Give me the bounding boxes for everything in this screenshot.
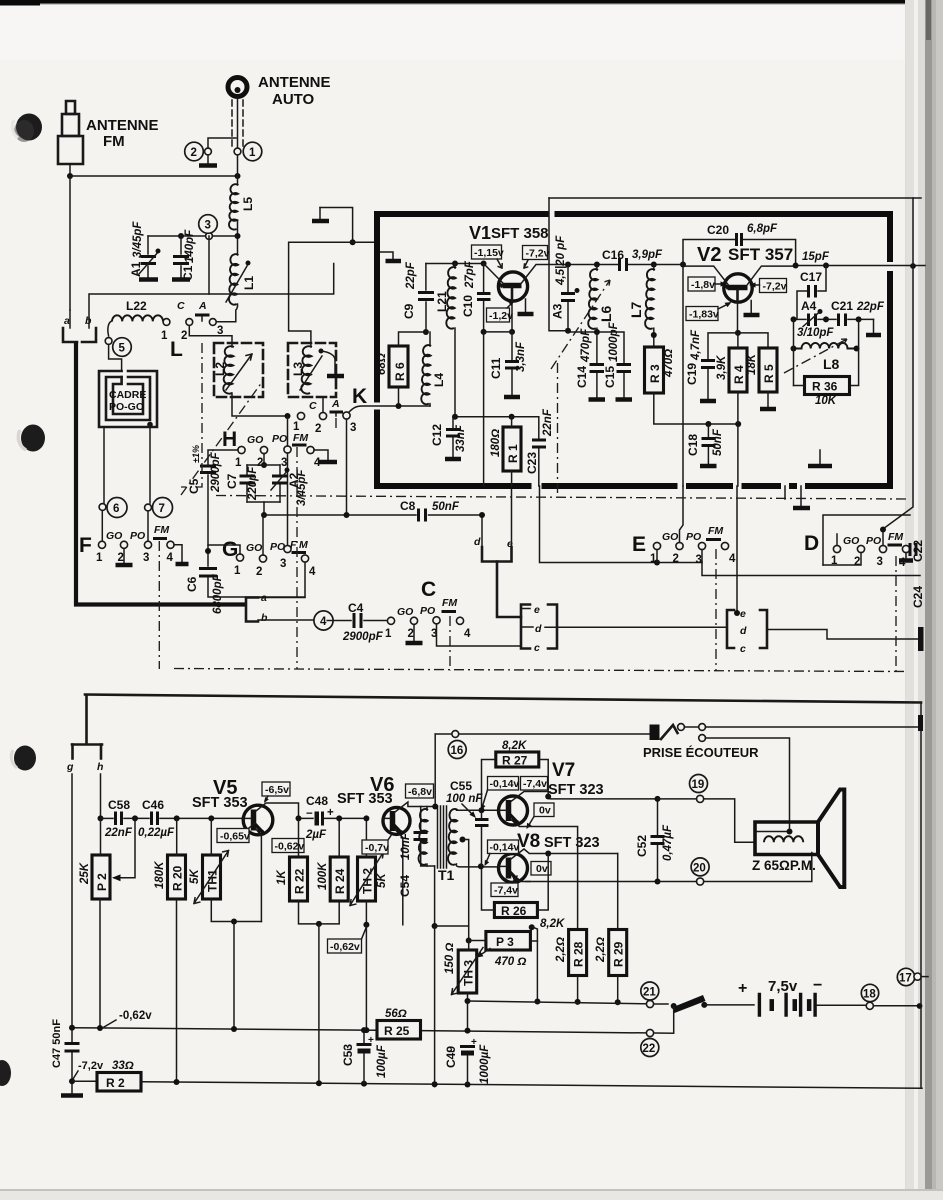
- svg-text:SFT 323: SFT 323: [544, 835, 600, 851]
- svg-text:PO: PO: [420, 605, 435, 617]
- F4 ground: [174, 545, 182, 562]
- svg-text:V8: V8: [517, 831, 540, 852]
- wire a to G4: [258, 562, 305, 598]
- resistor R3: [645, 347, 664, 393]
- svg-text:CADRE: CADRE: [109, 389, 146, 401]
- wire cadre right to circle 7: [149, 425, 151, 504]
- svg-text:180K: 180K: [154, 861, 166, 889]
- node 1 terminal: [234, 148, 241, 155]
- voltage box 0v V7: [534, 803, 554, 817]
- capacitor C18: [707, 424, 709, 437]
- svg-text:15pF: 15pF: [802, 251, 830, 263]
- dashed box L2: [214, 343, 263, 397]
- wire a-line down left: [69, 176, 71, 310]
- circle 22: [641, 1039, 659, 1057]
- wire cadre left to circle 6: [103, 427, 105, 503]
- coil L4: [429, 332, 431, 346]
- svg-text:P 3: P 3: [496, 935, 514, 949]
- svg-text:C55: C55: [450, 779, 472, 793]
- capacitor C1 140pF: [180, 236, 182, 254]
- thermistor TH3: [458, 950, 477, 993]
- wire K from t3 to IF box: [349, 406, 431, 413]
- wire antenna FM down to junction: [69, 164, 71, 176]
- terminal 3 of L row: [209, 319, 216, 326]
- AF box right border: [920, 703, 922, 1088]
- svg-text:R 1: R 1: [506, 444, 520, 463]
- circle 21: [641, 982, 659, 1000]
- svg-text:C18: C18: [686, 434, 700, 456]
- capacitor C23: [538, 417, 540, 439]
- capacitor C20: [683, 240, 735, 267]
- circle 19: [690, 775, 708, 793]
- svg-text:ANTENNE: ANTENNE: [258, 74, 331, 91]
- svg-text:R 22: R 22: [293, 868, 307, 894]
- coil L8: [794, 343, 856, 349]
- svg-text:2,2Ω: 2,2Ω: [595, 937, 607, 963]
- svg-text:0v: 0v: [539, 805, 551, 817]
- svg-text:C10: C10: [461, 295, 475, 317]
- svg-text:2: 2: [673, 553, 679, 565]
- svg-text:PO: PO: [270, 541, 285, 553]
- svg-text:470pF: 470pF: [580, 328, 592, 363]
- potentiometer P2: [92, 855, 110, 899]
- wire L row t2 to L2 top: [189, 326, 232, 347]
- svg-text:22nF: 22nF: [104, 827, 133, 839]
- svg-text:FM: FM: [154, 524, 169, 536]
- capacitor C19: [708, 333, 738, 359]
- transformer T1 secondary: [448, 809, 457, 865]
- svg-text:0v: 0v: [536, 863, 548, 875]
- wire x913 vertical: [883, 198, 913, 529]
- wire 15pF output line: [796, 265, 925, 267]
- wire g line down: [71, 774, 73, 1028]
- svg-text:H: H: [222, 428, 237, 451]
- svg-text:C22: C22: [911, 540, 925, 562]
- svg-text:PO: PO: [272, 433, 287, 445]
- svg-text:−: −: [346, 1045, 352, 1056]
- junction dot R6 bottom (K net): [396, 403, 402, 409]
- svg-text:1000µF: 1000µF: [479, 1044, 491, 1084]
- svg-text:C: C: [309, 400, 317, 412]
- resistor R28: [569, 930, 587, 976]
- svg-text:R 26: R 26: [501, 904, 527, 918]
- svg-text:c: c: [740, 643, 746, 655]
- wire R1 bottom to e bracket: [511, 471, 513, 486]
- dash-dot horizontal middle: [216, 496, 908, 500]
- svg-text:V2: V2: [697, 244, 721, 266]
- ground below box x801: [800, 486, 802, 506]
- coil L7: [653, 265, 655, 271]
- junction dot corner node: [350, 239, 356, 245]
- svg-text:L3: L3: [291, 362, 305, 376]
- junction dot L2 bottom: [285, 413, 291, 419]
- potentiometer P3: [486, 932, 531, 951]
- svg-text:A3: A3: [551, 303, 565, 319]
- wire L6 bottom bus to C15: [597, 332, 624, 363]
- svg-text:R 28: R 28: [572, 941, 586, 967]
- svg-text:R 36: R 36: [812, 380, 838, 394]
- circle 20: [691, 858, 709, 876]
- svg-text:−: −: [813, 977, 822, 994]
- svg-text:C19: C19: [685, 363, 699, 385]
- junction dot auto line: [235, 173, 241, 179]
- svg-text:2µF: 2µF: [305, 829, 327, 841]
- IF box thick border top: [374, 211, 893, 217]
- wire C3 to bracket c: [437, 624, 522, 646]
- svg-text:d: d: [535, 623, 542, 635]
- IF box thick border bottom: [374, 483, 893, 489]
- svg-text:R 20: R 20: [171, 865, 185, 891]
- svg-text:-6,5v: -6,5v: [265, 784, 289, 796]
- svg-text:SFT 353: SFT 353: [337, 791, 393, 807]
- wire V1 input rail: [426, 263, 484, 265]
- wire node3 to trimmers: [148, 235, 206, 237]
- svg-text:d: d: [474, 536, 481, 548]
- svg-text:±1%: ±1%: [191, 445, 201, 463]
- svg-text:4: 4: [309, 566, 316, 578]
- junction node 3 area: [237, 220, 239, 255]
- dash-dot arrow through L8: [784, 339, 847, 373]
- dashed box L3: [288, 343, 336, 397]
- svg-text:-7,2v: -7,2v: [526, 248, 550, 260]
- svg-text:6,8pF: 6,8pF: [747, 223, 778, 235]
- circle 17: [897, 968, 914, 985]
- svg-text:C7: C7: [225, 473, 239, 489]
- capacitor C9: [424, 302, 426, 332]
- wire 20 line: [658, 853, 812, 882]
- svg-text:3: 3: [205, 220, 211, 232]
- svg-text:GO: GO: [843, 535, 859, 547]
- svg-text:TH 2: TH 2: [361, 868, 375, 894]
- svg-text:22pF: 22pF: [405, 261, 417, 290]
- svg-text:3: 3: [280, 558, 286, 570]
- svg-text:GO: GO: [106, 530, 122, 542]
- capacitor C52: [657, 799, 659, 835]
- wire t3 down to C8 line: [346, 419, 348, 515]
- AF box top border: [85, 695, 921, 703]
- wire T1 sec bottom to V8 base: [456, 864, 498, 867]
- svg-text:C46: C46: [142, 798, 164, 812]
- svg-text:27pF: 27pF: [464, 260, 476, 289]
- T1 core: [438, 806, 447, 868]
- svg-text:-7,2v: -7,2v: [78, 1060, 104, 1072]
- wire T1 sec top to V7 base: [457, 809, 499, 811]
- svg-text:3: 3: [696, 554, 702, 566]
- svg-text:-0,7v: -0,7v: [365, 842, 389, 854]
- svg-text:22: 22: [643, 1043, 656, 1055]
- svg-text:50nF: 50nF: [712, 428, 724, 456]
- svg-text:C1: C1: [181, 265, 195, 281]
- capacitor C5: [208, 450, 238, 464]
- IF box thick border right: [887, 211, 893, 483]
- svg-text:F: F: [79, 534, 92, 557]
- coil L5: [237, 176, 239, 185]
- svg-text:PO: PO: [686, 531, 701, 543]
- IF box thick border left: [374, 211, 380, 483]
- svg-text:16: 16: [451, 745, 464, 757]
- wire R3 bottom rail: [654, 393, 738, 424]
- svg-text:SFT 357: SFT 357: [728, 245, 793, 264]
- svg-text:L6: L6: [598, 305, 614, 322]
- svg-text:GO: GO: [247, 434, 263, 446]
- svg-text:0,47µF: 0,47µF: [662, 824, 674, 861]
- svg-text:7: 7: [159, 503, 165, 515]
- resistor R29: [609, 930, 627, 976]
- svg-text:-0,62v: -0,62v: [275, 841, 305, 853]
- junction dot L4/C9 top: [423, 329, 429, 335]
- wire V2 base to e bracket below: [737, 424, 739, 486]
- svg-text:-1,8v: -1,8v: [691, 279, 715, 291]
- bracket e/d/c right: [727, 610, 734, 648]
- svg-text:180Ω: 180Ω: [490, 429, 502, 457]
- svg-text:L1: L1: [242, 276, 256, 290]
- capacitor C49 electrolytic: [460, 1045, 475, 1048]
- svg-text:3,9K: 3,9K: [716, 355, 728, 380]
- svg-text:-0,62v: -0,62v: [119, 1010, 152, 1022]
- dash-dot gang diagonal mixer: [181, 382, 262, 495]
- svg-text:2900pF: 2900pF: [342, 631, 384, 643]
- voltage box -0,7v: [362, 840, 388, 854]
- svg-text:19: 19: [692, 779, 705, 791]
- voltage box -7,4v V8: [491, 883, 518, 897]
- svg-text:A1: A1: [129, 261, 143, 277]
- capacitor C14: [596, 332, 598, 363]
- voltage box -0,14v V8: [488, 840, 519, 854]
- dash-dot gang vertical L area: [181, 343, 202, 487]
- speaker horn: [818, 790, 844, 888]
- svg-text:R 25: R 25: [384, 1024, 410, 1038]
- bracket a/b: [246, 598, 258, 622]
- svg-text:18K: 18K: [746, 353, 758, 375]
- transformer T1 primary: [426, 807, 428, 811]
- coil L21: [452, 261, 458, 267]
- svg-text:FM: FM: [442, 597, 457, 609]
- svg-text:25K: 25K: [79, 862, 91, 885]
- svg-text:d: d: [740, 625, 747, 637]
- binder hole top: [16, 114, 42, 141]
- svg-text:3,9pF: 3,9pF: [632, 249, 663, 261]
- wire corner node into IF box: [353, 241, 377, 243]
- svg-text:3,3nF: 3,3nF: [515, 341, 527, 372]
- wire E t2 drop from rail: [682, 265, 684, 487]
- row2 terminal 1: [297, 412, 304, 419]
- svg-text:TH 3: TH 3: [461, 960, 475, 986]
- wire E t3 to long rail: [702, 563, 920, 576]
- svg-text:2: 2: [315, 423, 321, 435]
- svg-text:1000pF: 1000pF: [608, 321, 620, 362]
- capacitor C53 electrolytic: [363, 1030, 365, 1043]
- svg-text:33nF: 33nF: [455, 424, 467, 452]
- wire antenna bus horizontal: [70, 175, 238, 177]
- svg-text:L7: L7: [628, 301, 644, 318]
- H4 ground: [314, 450, 328, 460]
- svg-text:470 Ω: 470 Ω: [494, 956, 526, 968]
- dash-dot vertical FM H/G rows: [296, 447, 298, 670]
- svg-text:8,2K: 8,2K: [540, 918, 565, 930]
- svg-text:GO: GO: [246, 542, 262, 554]
- svg-text:c: c: [534, 642, 540, 654]
- wire H3 through: [287, 416, 289, 546]
- svg-text:17: 17: [899, 973, 912, 985]
- svg-text:-0,62v: -0,62v: [330, 941, 360, 953]
- svg-text:L8: L8: [823, 356, 840, 372]
- svg-text:-0,14v: -0,14v: [490, 778, 520, 790]
- wire L1 bottom to switch contact 3: [216, 304, 237, 322]
- svg-text:E: E: [632, 533, 646, 556]
- resistor R36: [805, 377, 850, 395]
- ground under node 2: [207, 155, 209, 164]
- wire T1 prim bottom to lower bus: [434, 926, 436, 1087]
- capacitor C15: [617, 363, 632, 366]
- capacitor C54: [420, 807, 422, 832]
- svg-text:P 2: P 2: [95, 873, 109, 891]
- wire switch to battery: [704, 1004, 754, 1006]
- svg-text:+: +: [738, 980, 747, 997]
- circle 4: [314, 611, 333, 630]
- svg-text:-7,2v: -7,2v: [763, 281, 787, 293]
- svg-text:3/10pF: 3/10pF: [797, 327, 834, 339]
- svg-text:C15: C15: [603, 366, 617, 388]
- svg-text:-6,8v: -6,8v: [408, 786, 432, 798]
- svg-text:C14: C14: [575, 366, 589, 388]
- wire b-line to L3 top: [209, 293, 289, 295]
- svg-text:22nF: 22nF: [542, 408, 554, 437]
- dash-dot gang through A3: [551, 280, 610, 369]
- voltage box -7,2v: [523, 246, 548, 260]
- svg-text:−: −: [449, 1047, 455, 1058]
- voltage box -1,15v: [472, 245, 502, 259]
- terminal 3 circle: [206, 233, 213, 240]
- wire T1 prim bottom down: [434, 866, 436, 926]
- bracket e/d/c left: [521, 605, 530, 649]
- capacitor C11: [511, 332, 513, 360]
- svg-text:A4: A4: [801, 299, 817, 313]
- svg-text:22pF: 22pF: [856, 301, 885, 313]
- wire A3 branch: [549, 265, 568, 331]
- row2 terminal 3: [343, 412, 350, 419]
- wire b-line from L1 tank down: [89, 236, 209, 318]
- svg-text:4,7nF: 4,7nF: [690, 329, 702, 361]
- svg-text:C21: C21: [831, 299, 853, 313]
- svg-text:5K: 5K: [189, 869, 201, 884]
- svg-text:20: 20: [693, 863, 706, 875]
- wire node1 down: [237, 155, 239, 176]
- svg-text:FM: FM: [888, 531, 903, 543]
- dash-dot vertical C row: [449, 616, 451, 671]
- svg-text:L4: L4: [432, 373, 446, 387]
- svg-text:3: 3: [143, 552, 149, 564]
- wire supply rail 21: [468, 1001, 651, 1004]
- wire C8 line: [264, 514, 416, 516]
- resistor R24: [330, 857, 348, 901]
- svg-text:-1,83v: -1,83v: [689, 309, 719, 321]
- svg-text:-0,14v: -0,14v: [490, 842, 520, 854]
- svg-text:4: 4: [729, 553, 736, 565]
- prise ecouteur jack: [650, 725, 660, 741]
- ground bar upper: [312, 219, 329, 224]
- junction dot C7 bottom: [261, 512, 267, 518]
- L3 top dot and ground right: [319, 349, 324, 354]
- wire circle7 to F3: [147, 511, 149, 541]
- svg-text:3/45pF: 3/45pF: [296, 469, 308, 506]
- wire L3 top bridge: [289, 294, 311, 347]
- svg-text:1: 1: [235, 457, 242, 469]
- dash-dot vertical FM F row: [158, 541, 160, 669]
- wire x549 drop into box: [548, 198, 550, 264]
- thermistor TH2: [358, 857, 376, 901]
- svg-text:R 4: R 4: [732, 365, 746, 384]
- wire V7 emitter to R28: [527, 827, 578, 930]
- svg-text:FM: FM: [103, 133, 125, 150]
- svg-text:T1: T1: [438, 867, 455, 883]
- svg-text:F: F: [290, 539, 297, 551]
- svg-text:L21: L21: [435, 291, 449, 312]
- capacitor C10: [481, 261, 487, 267]
- scan bottom faint edge: [0, 1189, 943, 1191]
- ground inside box top-left: [386, 259, 402, 264]
- node 2 terminal and stub: [205, 148, 212, 155]
- resistor R6: [389, 346, 408, 387]
- svg-text:1K: 1K: [276, 870, 288, 885]
- svg-text:3: 3: [877, 556, 883, 568]
- svg-text:GO: GO: [397, 606, 413, 618]
- svg-text:33Ω: 33Ω: [112, 1060, 134, 1072]
- wire V8 emitter line 20: [526, 881, 658, 883]
- svg-text:6: 6: [113, 503, 119, 515]
- svg-text:FM: FM: [708, 525, 723, 537]
- coil L6 variable: [596, 265, 598, 271]
- svg-text:C24: C24: [911, 586, 925, 608]
- svg-text:1: 1: [96, 552, 103, 564]
- svg-text:h: h: [97, 761, 103, 773]
- svg-text:100K: 100K: [317, 862, 329, 890]
- wire lower bus: [141, 1082, 922, 1089]
- svg-text:-7,4v: -7,4v: [523, 778, 547, 790]
- svg-text:C47 50nF: C47 50nF: [51, 1019, 63, 1068]
- svg-text:PRISE ÉCOUTEUR: PRISE ÉCOUTEUR: [643, 745, 759, 760]
- wire V6 collector node up to 16 line: [434, 734, 436, 807]
- junction dot FM line: [67, 173, 73, 179]
- resistor R22: [290, 857, 308, 901]
- svg-text:C: C: [177, 300, 185, 312]
- svg-text:R 6: R 6: [393, 362, 407, 381]
- wire e tick left bracket: [521, 608, 530, 610]
- wire d to page edge bar: [767, 630, 919, 640]
- circle 6: [99, 504, 106, 511]
- svg-text:1: 1: [161, 330, 168, 342]
- svg-text:ANTENNE: ANTENNE: [86, 117, 159, 134]
- svg-text:a: a: [64, 315, 70, 327]
- voltage box -6,5v: [262, 782, 290, 796]
- wire circle6 to F1: [101, 511, 103, 542]
- svg-text:SFT 353: SFT 353: [192, 795, 248, 811]
- resistor R5: [759, 348, 777, 392]
- svg-text:C8: C8: [400, 499, 416, 513]
- ground right of C21: [873, 319, 875, 333]
- svg-text:C: C: [421, 578, 436, 601]
- wire d long to right bracket: [521, 626, 727, 628]
- svg-text:V1: V1: [469, 223, 491, 243]
- voltage box -0,14v V7: [488, 777, 519, 791]
- thermistor TH1: [203, 855, 221, 899]
- svg-text:D: D: [804, 532, 819, 555]
- svg-text:4: 4: [464, 628, 471, 640]
- capacitor C6: [205, 548, 211, 554]
- voltage box -0,62v V5: [272, 839, 304, 853]
- svg-text:1: 1: [650, 553, 657, 565]
- svg-text:5K: 5K: [376, 873, 388, 888]
- scan top edge black bar: [0, 0, 943, 4]
